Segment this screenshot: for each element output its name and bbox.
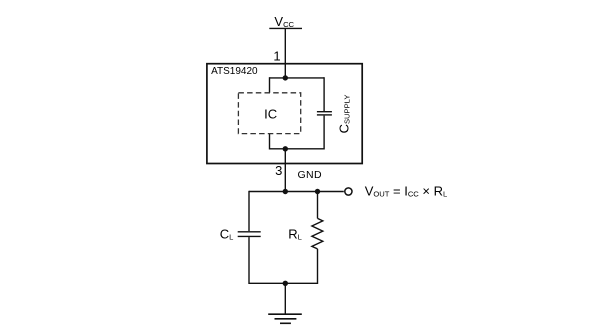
wire gnd node to pin 3 [284,149,286,192]
capacitor CSUPPLY top lead [323,77,325,111]
capacitor CL top lead [248,191,250,231]
capacitor CSUPPLY bottom lead [323,116,325,150]
ground bar 3 [280,322,291,324]
output terminal circle [345,188,352,195]
wire internal bottom rail [270,148,325,150]
junction dot RL node [315,189,320,194]
capacitor CSUPPLY top plate [317,111,332,113]
net VCC bar [269,27,302,29]
wire internal left top stub [269,77,271,93]
capacitor CL bottom plate [238,235,261,237]
junction dot gnd node inside box [283,146,288,151]
junction dot main/CL node [283,189,288,194]
svg-text:IC: IC [264,106,277,121]
svg-text:ATS19420: ATS19420 [211,66,258,77]
svg-text:3: 3 [275,163,282,178]
capacitor CL top plate [238,231,261,233]
wire bottom rail [249,282,318,284]
junction dot pin1 node [283,75,288,80]
IC dashed block [238,93,300,134]
svg-text:GND: GND [298,169,322,181]
capacitor CL bottom lead [248,237,250,284]
device box ATS19420 [207,64,362,164]
capacitor CSUPPLY bottom plate [317,114,332,116]
junction dot ground tap [283,281,288,286]
resistor RL zigzag [312,218,323,249]
wire output node rail [249,191,344,193]
wire VCC to pin 1 [284,28,286,78]
ground stub [284,283,286,314]
ground bar 1 [268,313,302,315]
svg-text:1: 1 [273,49,280,64]
wire internal top rail [270,77,325,79]
wire internal left bottom stub [269,134,271,150]
resistor RL top lead [317,191,319,219]
ground bar 2 [275,318,297,320]
resistor RL bottom lead [317,249,319,284]
